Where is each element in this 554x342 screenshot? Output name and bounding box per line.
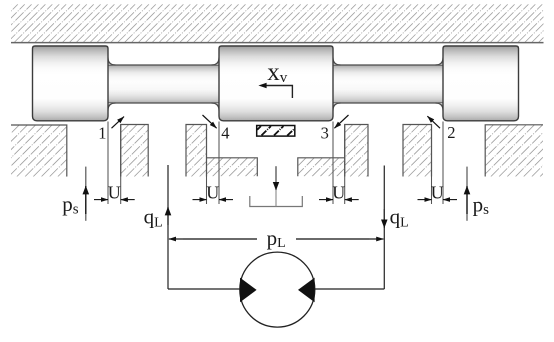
svg-text:1: 1 [98, 124, 106, 143]
svg-text:ps: ps [62, 192, 79, 218]
svg-text:U: U [332, 182, 345, 202]
svg-text:qL: qL [390, 205, 409, 231]
svg-text:2: 2 [447, 123, 455, 142]
svg-text:pL: pL [267, 226, 286, 251]
svg-text:U: U [108, 182, 121, 202]
svg-text:qL: qL [144, 204, 163, 230]
svg-text:3: 3 [321, 124, 329, 143]
svg-text:ps: ps [473, 192, 490, 218]
svg-text:U: U [431, 182, 444, 202]
svg-text:U: U [206, 182, 219, 202]
svg-text:4: 4 [221, 124, 229, 143]
